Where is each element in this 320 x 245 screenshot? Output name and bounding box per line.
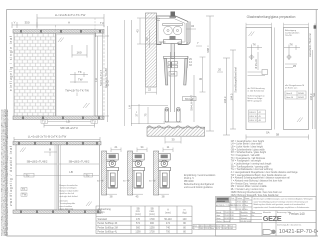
vertical dims right of panels — [313, 24, 316, 130]
center overlap lines — [55, 145, 61, 210]
svg-text:einschraubbar: einschraubbar — [60, 206, 73, 208]
svg-text:design: design — [98, 212, 106, 214]
svg-text:29.01.10: 29.01.10 — [237, 202, 244, 204]
svg-text:GEZE: GEZE — [263, 214, 282, 223]
svg-text:Krz: Krz — [252, 215, 255, 217]
dim line LL — [37, 14, 104, 27]
svg-text:50-140: 50-140 — [164, 219, 172, 221]
door panel left — [16, 145, 57, 210]
svg-text:43: 43 — [136, 29, 140, 33]
svg-text:Aenderungen und Abmessungen, a: Aenderungen und Abmessungen, auch nur te… — [254, 198, 313, 201]
svg-text:zugestanden wird. Zuwiderhandl: zugestanden wird. Zuwiderhandlungen verp… — [254, 206, 310, 209]
svg-text:TU: TU — [42, 120, 46, 124]
svg-text:02.06.10: 02.06.10 — [237, 209, 244, 211]
hanger nut — [170, 36, 176, 40]
svg-text:MS = Version Mittel / version: MS = Version Mittel / version middle — [231, 185, 268, 188]
legend abbreviation list — [231, 140, 299, 197]
svg-text:OEB= Bohrung Muschenpunkt / bo: OEB= Bohrung Muschenpunkt / bore hole fl… — [231, 191, 282, 194]
svg-text:Schmid: Schmid — [241, 218, 247, 220]
track inner wall lines — [158, 18, 187, 44]
svg-text:B: B — [49, 148, 51, 152]
svg-text:Y = Abstand erste Bohrung / d: Y = Abstand erste Bohrung / distance fir… — [231, 180, 283, 183]
dark document label cell — [216, 197, 229, 202]
svg-text:14.04.10: 14.04.10 — [237, 205, 244, 207]
design table frame — [96, 206, 192, 234]
revision strip left of title block — [193, 225, 236, 230]
svg-text:M = Version Euro / version sh: M = Version Euro / version short — [231, 182, 263, 185]
svg-text:Ers.d.: Ers.d. — [229, 225, 234, 228]
door leaf outline — [56, 33, 96, 118]
svg-text:B = Abstand Schwingungsfreihe: B = Abstand Schwingungsfreiheit / distan… — [231, 177, 290, 180]
svg-text:Bodenfuehrung durchgehend: Bodenfuehrung durchgehend — [184, 183, 214, 186]
svg-text:Empfehlung / recommendation: Empfehlung / recommendation — [184, 174, 216, 177]
note paragraph in title block — [254, 198, 313, 209]
svg-text:Bumper Innenlaufter: Bumper Innenlaufter — [60, 184, 78, 187]
note text left panel mid — [248, 87, 266, 103]
stamp icon — [263, 230, 276, 235]
roller top plate — [163, 24, 183, 26]
glass mark right panel — [297, 118, 303, 123]
svg-text:A = Laengsabstand Fluegelbrei: A = Laengsabstand Fluegelbreite / door h… — [231, 171, 299, 174]
svg-text:988 =: 988 = — [206, 45, 210, 53]
svg-text:Ers.f.: Ers.f. — [223, 225, 227, 228]
drill hole left — [249, 54, 255, 60]
svg-text:104.3: 104.3 — [230, 93, 234, 100]
svg-text:SB=LB/2+TU-B/2: SB=LB/2+TU-B/2 — [69, 160, 90, 164]
small table left panel — [249, 110, 266, 122]
svg-text:26: 26 — [145, 37, 149, 41]
glass mark left panel — [249, 32, 255, 37]
svg-text:end-to-end bottom guidance: end-to-end bottom guidance — [184, 186, 213, 189]
margin disclaimer text block — [1, 109, 9, 236]
svg-text:GH = Gesamthoehe / door height: GH = Gesamthoehe / door height — [231, 140, 265, 143]
design table text — [98, 208, 188, 234]
floor guide detail 2 — [123, 145, 147, 198]
svg-text:Y: Y — [13, 21, 15, 25]
svg-text:Aend: Aend — [200, 225, 204, 228]
glass thickness label 8/10/12 — [183, 97, 197, 101]
floor slab hatch — [147, 126, 205, 136]
track inner profile — [159, 19, 185, 43]
note text in right panel — [60, 184, 79, 211]
svg-text:Ausfuehrung: Ausfuehrung — [98, 208, 112, 211]
bottom sill single leaf — [13, 116, 104, 120]
hanger plate — [164, 40, 182, 44]
svg-text:TW = Fussgespiel / rail weight: TW = Fussgespiel / rail weight — [231, 160, 261, 163]
svg-text:Standard: Standard — [98, 218, 108, 221]
svg-text:SH=LH-TU-7: SH=LH-TU-7 — [190, 95, 194, 111]
hole detail box left — [262, 70, 268, 75]
svg-text:29.01.2010: 29.01.2010 — [225, 215, 234, 217]
small table right panel — [285, 91, 306, 99]
svg-text:a: a — [231, 202, 232, 204]
svg-text:and right leaf shifted: and right leaf shifted — [60, 195, 78, 198]
svg-text:Zeichnungs-Nr. / document no.: Zeichnungs-Nr. / document no. — [277, 223, 302, 226]
svg-text:Urspr: Urspr — [217, 225, 222, 228]
svg-text:1700: 1700 — [149, 219, 155, 221]
glass mark top — [58, 38, 64, 43]
svg-text:Scherenspiegel an: Scherenspiegel an — [248, 94, 266, 97]
vertical dim left of panels — [230, 50, 236, 129]
svg-text:c: c — [231, 209, 232, 211]
svg-text:ESG 8: ESG 8 — [250, 112, 257, 114]
svg-text:ESG 12: ESG 12 — [250, 120, 258, 122]
svg-text:einflugelig / single leaf: einflugelig / single leaf — [9, 36, 13, 91]
clamp label box — [169, 72, 177, 77]
svg-text:1290: 1290 — [135, 232, 141, 234]
svg-text:160: 160 — [76, 51, 81, 55]
svg-text:SH: SH — [312, 93, 316, 97]
glass panel section lines — [171, 52, 175, 112]
svg-text:104.3: 104.3 — [223, 96, 227, 103]
svg-text:1290: 1290 — [149, 227, 155, 229]
svg-text:Bearb.: Bearb. — [216, 212, 222, 214]
svg-text:DIN40: DIN40 — [298, 93, 305, 95]
svg-text:TK = Fussgelaenze / rail thick: TK = Fussgelaenze / rail thickness — [231, 157, 266, 160]
svg-text:m: m — [184, 210, 186, 212]
svg-text:SH = Scheibenhoehe / glass hei: SH = Scheibenhoehe / glass height — [231, 151, 267, 154]
right vertical dim 104.3 — [223, 58, 230, 135]
svg-text:TG = Tuerblattstaerke / door l: TG = Tuerblattstaerke / door leaf oeffnu… — [231, 168, 274, 171]
svg-text:EN AW-6060: EN AW-6060 — [241, 220, 251, 223]
svg-text:Ausschnitt / flush cut: Ausschnitt / flush cut — [308, 33, 312, 57]
svg-text:LB: LB — [69, 170, 73, 174]
svg-text:20: 20 — [218, 68, 221, 72]
svg-text:37 =: 37 = — [135, 111, 139, 117]
svg-text:Mue: Mue — [211, 228, 214, 230]
svg-text:LL=2xLB-3xTU-TK-TW: LL=2xLB-3xTU-TK-TW — [55, 13, 86, 17]
svg-text:Mue: Mue — [245, 205, 249, 207]
hanger right — [91, 33, 96, 36]
svg-text:02.02.2010: 02.02.2010 — [225, 218, 234, 220]
svg-text:versetzt unterlegen: versetzt unterlegen — [60, 187, 77, 190]
svg-text:E-70: E-70 — [217, 228, 221, 230]
svg-text:E-042: E-042 — [223, 228, 228, 230]
svg-text:Name: Name — [245, 198, 250, 200]
glass mark double bottom — [86, 202, 92, 207]
floor guide detail 3 — [149, 145, 173, 198]
svg-text:A: A — [68, 21, 70, 25]
hanger left — [58, 33, 63, 36]
svg-text:Mue: Mue — [245, 202, 249, 204]
svg-text:29.01.2010: 29.01.2010 — [225, 212, 234, 214]
bottom guide profile — [164, 108, 182, 123]
roller carriage — [157, 19, 182, 35]
svg-text:105: 105 — [171, 73, 176, 76]
svg-text:Norm: Norm — [216, 218, 221, 220]
svg-text:TK=TB: TK=TB — [285, 35, 292, 37]
svg-text:Zust: Zust — [194, 225, 198, 228]
svg-text:Gepr.: Gepr. — [216, 215, 221, 217]
svg-text:DIN42: DIN42 — [298, 97, 305, 99]
svg-text:ML = Version Lang / version lo: ML = Version Lang / version long — [231, 188, 264, 191]
track profile outer — [157, 16, 189, 45]
track fixing clips — [20, 30, 101, 33]
svg-text:Ø 25+18: Ø 25+18 — [255, 59, 258, 69]
track fixing screw — [171, 12, 176, 18]
note text right panel top — [285, 29, 300, 37]
svg-text:350: 350 — [24, 21, 29, 25]
clamp bolt — [168, 62, 178, 65]
drill hole right — [286, 54, 292, 60]
svg-text:TU: TU — [92, 120, 96, 124]
svg-text:an Kante aus: an Kante aus — [285, 87, 297, 90]
svg-text:ESG 10: ESG 10 — [250, 116, 258, 118]
GH extension line — [106, 20, 124, 126]
svg-text:1840: 1840 — [200, 228, 204, 230]
opening dashed line — [103, 25, 105, 118]
svg-text:in 100 Schritte bei: in 100 Schritte bei — [248, 90, 265, 93]
svg-text:gezeichn.: gezeichn. — [216, 201, 224, 203]
door edge extension dashed — [94, 18, 96, 33]
brick wall — [14, 33, 56, 118]
svg-text:(mm): (mm) — [135, 214, 141, 216]
svg-text:nachbearbeiten: nachbearbeiten — [285, 32, 300, 35]
svg-text:E-043: E-043 — [229, 228, 234, 230]
floor guide detail 1 — [97, 145, 121, 198]
svg-text:max.: max. — [149, 211, 154, 213]
svg-text:75: 75 — [144, 113, 148, 117]
wall edge dashed — [55, 25, 57, 33]
svg-text:Standfluegel/fixed leaf: Standfluegel/fixed leaf — [234, 67, 238, 93]
door panel right — [59, 145, 100, 210]
svg-text:SH=LH-TU-7: SH=LH-TU-7 — [99, 69, 103, 86]
svg-text:Mitteilung ihres Inhalts nicht: Mitteilung ihres Inhalts nicht gestattet… — [254, 203, 305, 206]
svg-text:LH = Lichte Breite / clear wid: LH = Lichte Breite / clear width — [231, 143, 262, 146]
long dim 988 — [206, 16, 214, 131]
glass panel left — [246, 28, 272, 130]
svg-text:Profil p. 5: Profil p. 5 — [184, 177, 194, 180]
svg-text:TK: TK — [290, 43, 294, 47]
top track rail (double leaf) — [13, 142, 101, 145]
svg-text:Datum: Datum — [237, 197, 243, 200]
svg-text:Tuerstopfenpuffer: Tuerstopfenpuffer — [60, 202, 76, 205]
svg-text:SB = Tuerfluegelbreite / openi: SB = Tuerfluegelbreite / opening width — [231, 165, 270, 168]
glass mark bottom — [83, 103, 90, 108]
svg-text:SA: SA — [266, 131, 270, 135]
door leaf inner line — [57, 34, 95, 117]
svg-text:Perlan 140: Perlan 140 — [289, 212, 305, 216]
svg-text:TU = Fussgelaenz / rail width: TU = Fussgelaenz / rail width — [231, 154, 261, 157]
svg-text:SB: SB — [150, 209, 154, 211]
svg-text:install on the left: install on the left — [60, 192, 75, 195]
svg-text:min.: min. — [136, 211, 141, 213]
svg-text:22: 22 — [148, 87, 152, 91]
svg-text:TK: TK — [78, 70, 82, 74]
svg-text:ab 700 Erhoehung: ab 700 Erhoehung — [248, 87, 266, 90]
svg-text:GB = Scheibenbreite / glass wi: GB = Scheibenbreite / glass width — [231, 148, 266, 151]
svg-text:TU: TU — [100, 21, 104, 25]
svg-text:(mm): (mm) — [165, 213, 171, 215]
svg-text:30: 30 — [199, 77, 203, 81]
svg-text:ANTEILIG / CONTINUING: ANTEILIG / CONTINUING — [216, 204, 238, 207]
right panel hole dims — [285, 64, 297, 68]
svg-text:Perlan SoftStop 4L: Perlan SoftStop 4L — [98, 231, 118, 234]
svg-text:TW=LB-TU-TK-TW: TW=LB-TU-TK-TW — [65, 89, 89, 93]
svg-text:SB: SB — [136, 209, 140, 211]
extension lines LH — [131, 106, 168, 124]
svg-text:sowie Vervielfaeltigung dieser: sowie Vervielfaeltigung dieser Unterlage… — [254, 200, 308, 203]
glass clamp profile plates — [164, 56, 189, 85]
recommendation note — [184, 174, 216, 189]
track bottom lips — [161, 42, 178, 45]
leader arrow mark top right — [314, 25, 317, 28]
svg-text:34: 34 — [191, 24, 195, 28]
svg-text:30: 30 — [171, 138, 175, 142]
svg-text:LH: LH — [94, 78, 98, 82]
svg-text:LH: LH — [128, 105, 132, 109]
svg-text:Perlan SoftStop 2M: Perlan SoftStop 2M — [98, 226, 118, 229]
top track rail (single leaf) — [13, 30, 104, 34]
svg-text:Muehlich: Muehlich — [241, 212, 248, 214]
svg-text:(kg): (kg) — [182, 213, 186, 215]
svg-text:58: 58 — [276, 133, 280, 137]
svg-text:TK: TK — [253, 43, 257, 47]
svg-text:TW: TW — [78, 78, 83, 82]
svg-text:Zust.: Zust. — [231, 197, 235, 200]
svg-text:1700: 1700 — [149, 232, 155, 234]
svg-text:TW = Laengendistanze Band / do: TW = Laengendistanze Band / door handle … — [231, 174, 287, 177]
svg-text:Mue: Mue — [252, 212, 256, 214]
svg-text:MTS / geeignet: MTS / geeignet — [248, 100, 263, 103]
panel top dim lines — [246, 23, 309, 28]
svg-text:Bumper rebate buffer: Bumper rebate buffer — [60, 189, 79, 192]
svg-text:Gew.8: Gew.8 — [286, 93, 293, 95]
svg-text:SB=LB+2xTU: SB=LB+2xTU — [60, 126, 78, 130]
svg-text:LL=2xLB-2xTU-B-2xTK-2xTW: LL=2xLB-2xTU-B-2xTK-2xTW — [28, 135, 67, 139]
svg-text:Werkst. / material: Werkst. / material — [216, 220, 231, 223]
dim stack 29 14 33 — [189, 58, 192, 67]
section wall (diagonal hatch) — [146, 13, 157, 87]
svg-text:Kretzsch.: Kretzsch. — [241, 214, 249, 217]
glass panel right — [284, 28, 309, 130]
right vertical dims single leaf — [95, 26, 109, 122]
double leaf track clips — [18, 142, 98, 145]
title block frame — [216, 197, 317, 237]
dim line double — [14, 137, 100, 142]
svg-text:(mm): (mm) — [149, 214, 155, 216]
svg-text:GH=LH+TU+88: GH=LH+TU+88 — [104, 68, 108, 88]
title block small text — [216, 197, 290, 223]
svg-text:SB=LB/2+TU-B/2: SB=LB/2+TU-B/2 — [27, 160, 48, 164]
bottom sill double leaf — [13, 210, 101, 213]
hanger bolt — [171, 44, 174, 59]
svg-text:LB = Lichte Hoehe / clear heig: LB = Lichte Hoehe / clear height — [231, 145, 263, 148]
svg-text:Befestigung: Befestigung — [285, 29, 297, 32]
svg-text:Sch: Sch — [245, 209, 248, 211]
svg-text:PB=1000: PB=1000 — [184, 181, 194, 183]
svg-text:10421-EP-70-042: 10421-EP-70-042 — [279, 229, 318, 235]
glass mark double top — [20, 148, 26, 153]
svg-text:Gew.10: Gew.10 — [286, 97, 294, 99]
svg-text:LB: LB — [66, 120, 70, 124]
note text right panel mid — [285, 85, 304, 90]
svg-text:Perlan SoftStop 4K: Perlan SoftStop 4K — [98, 222, 118, 225]
svg-text:alternativ:: alternativ: — [60, 199, 69, 202]
svg-text:29.01: 29.01 — [205, 228, 209, 230]
svg-text:LL = Laufschienige / running t: LL = Laufschienige / running track lengt… — [231, 163, 272, 166]
svg-text:zweiflugelig / double leaf: zweiflugelig / double leaf — [9, 146, 13, 206]
svg-text:a: a — [194, 228, 195, 230]
svg-text:Glasbearbeitung/glass preparat: Glasbearbeitung/glass preparation — [247, 15, 296, 19]
